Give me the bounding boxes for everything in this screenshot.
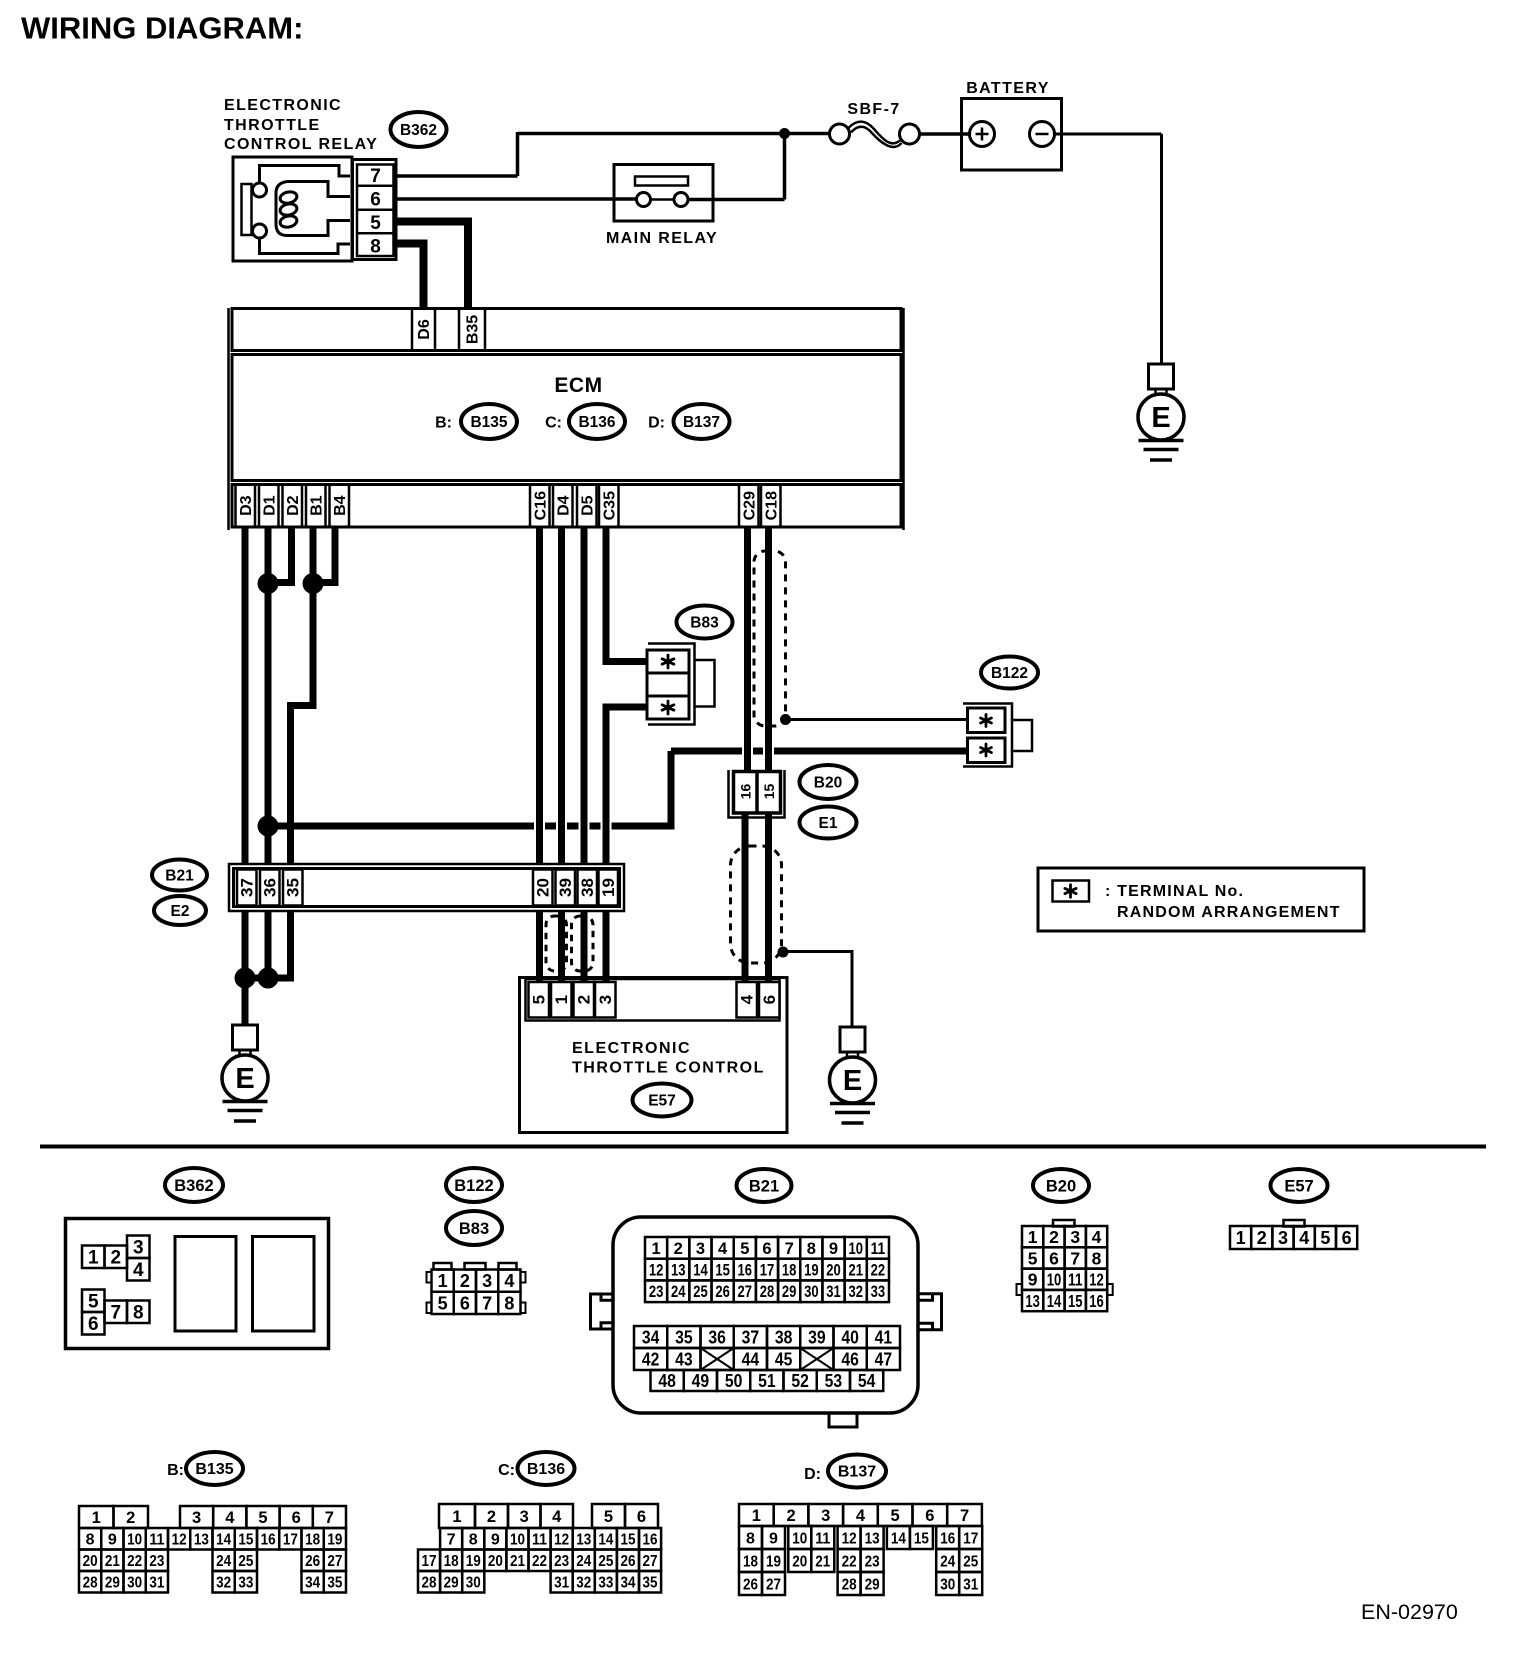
ECM main box [232,355,901,481]
svg-text:E: E [1151,402,1170,434]
svg-text:8: 8 [746,1530,755,1547]
svg-text:RANDOM ARRANGEMENT: RANDOM ARRANGEMENT [1117,904,1341,921]
svg-text:9: 9 [1028,1270,1038,1290]
ETC pin 3 [595,982,616,1018]
svg-text:15: 15 [1068,1291,1083,1311]
svg-text:32: 32 [848,1283,863,1301]
svg-text:6: 6 [88,1314,99,1335]
connector pinout B136 [418,1504,661,1593]
svg-text:1: 1 [651,1240,660,1258]
B21 tab bottom [829,1413,857,1427]
svg-text:23: 23 [554,1553,569,1570]
oval B135 (pinout) [186,1452,243,1485]
svg-text:D4: D4 [555,495,572,516]
wire relay pin5 to ECM B35 (thick) [396,222,468,310]
tab top 2 [465,1263,486,1270]
wire D3 to B21-37 [242,528,249,865]
svg-text:21: 21 [848,1261,863,1279]
svg-text:23: 23 [865,1553,880,1570]
svg-text:4: 4 [1092,1227,1102,1247]
wire branch D1 to B122 (lower horizontal) [268,823,534,830]
svg-text:38: 38 [775,1327,793,1347]
wire main relay to junction [688,198,785,202]
svg-text:5: 5 [530,995,549,1004]
svg-text:38: 38 [578,878,597,897]
svg-text:9: 9 [829,1240,838,1258]
svg-text:22: 22 [127,1553,142,1570]
svg-text:7: 7 [447,1532,456,1549]
junction dot ground 2 [258,968,279,989]
ECM pin C16 [530,485,550,528]
svg-text:29: 29 [105,1575,120,1592]
connector pinout B21 [591,1217,942,1427]
svg-text:2: 2 [1257,1228,1267,1248]
svg-text:12: 12 [1089,1270,1104,1290]
oval B122 (pinout) [446,1168,502,1202]
svg-text:47: 47 [875,1349,893,1369]
ETC pin 5 [529,982,550,1018]
svg-text:ELECTRONIC: ELECTRONIC [224,97,342,114]
svg-text:44: 44 [742,1349,760,1369]
svg-text:1: 1 [88,1248,99,1269]
svg-text:43: 43 [675,1349,693,1369]
svg-text:40: 40 [841,1327,859,1347]
svg-text:25: 25 [598,1553,613,1570]
connector oval B20 [800,765,857,799]
svg-text:THROTTLE: THROTTLE [224,117,321,134]
svg-text:17: 17 [283,1532,298,1549]
svg-text:3: 3 [596,995,615,1004]
svg-text:25: 25 [238,1553,253,1570]
relay contact arm bottom [260,238,351,254]
svg-text:B20: B20 [1046,1177,1076,1195]
svg-text:2: 2 [460,1271,470,1291]
svg-text:4: 4 [718,1240,728,1258]
svg-text:17: 17 [963,1530,978,1547]
separator line [40,1145,1486,1149]
wire battery ground vertical [1160,134,1163,365]
relay connector strip B362 pins [353,160,397,260]
oval B136 [569,404,625,439]
svg-text:6: 6 [370,190,381,211]
svg-text:13: 13 [576,1532,591,1549]
svg-text:E57: E57 [1284,1177,1313,1195]
svg-text:1: 1 [752,1507,761,1525]
shield junction dot to B122 [780,714,791,725]
svg-text:11: 11 [815,1530,830,1547]
svg-text:31: 31 [963,1576,978,1593]
svg-text:16: 16 [261,1532,276,1549]
B21 tab right [918,1294,942,1330]
B362 cavity 1 [175,1237,236,1332]
svg-text:B4: B4 [332,495,349,516]
connector pinout B137 [739,1504,982,1595]
relay coil loop 2 [279,202,298,216]
svg-text:3: 3 [520,1508,529,1526]
svg-text:13: 13 [671,1261,686,1279]
svg-text:1: 1 [1028,1227,1038,1247]
svg-text:26: 26 [715,1283,730,1301]
wire relay pin7 vertical [516,132,520,176]
svg-text:15: 15 [238,1532,253,1549]
svg-text:C:: C: [545,415,562,432]
connector pinout E57 [1230,1220,1357,1249]
svg-text:2: 2 [487,1508,496,1526]
svg-text:26: 26 [305,1553,320,1570]
svg-text:49: 49 [692,1371,710,1391]
svg-text:9: 9 [491,1532,500,1549]
svg-text:41: 41 [875,1327,893,1347]
wire junction vertical [783,134,787,200]
ECM pin D1 [259,485,279,528]
asterisk terminal B83 top [662,655,674,668]
svg-text:52: 52 [791,1371,809,1391]
svg-text:B136: B136 [578,414,615,431]
svg-text:5: 5 [604,1508,613,1526]
wire relay pin8 to ECM D6 (thick) [396,244,424,310]
svg-text:B35: B35 [465,315,482,344]
wire B21-39 to ETC-1 [558,911,565,984]
B20 tab right [1107,1284,1113,1295]
junction dot top bus [779,128,790,139]
svg-text:54: 54 [858,1371,876,1391]
svg-text:C16: C16 [532,491,549,520]
asterisk terminal B122 top [981,715,992,727]
wire branch upper horizontal to B122 [671,748,742,755]
relay contact circle bottom [253,224,267,238]
svg-text:16: 16 [940,1530,955,1547]
svg-text:17: 17 [422,1553,437,1570]
svg-text:51: 51 [758,1371,776,1391]
wire B21-37 to ground [242,912,249,1026]
thin wire shield to B122 [789,718,966,721]
svg-text:7: 7 [482,1293,492,1313]
oval B136 (pinout) [518,1452,575,1485]
svg-text:26: 26 [620,1553,635,1570]
svg-text:31: 31 [149,1575,164,1592]
svg-text:13: 13 [1025,1291,1040,1311]
ECM bottom connector strip [232,485,901,528]
svg-text:7: 7 [960,1507,969,1525]
svg-text:3: 3 [192,1509,201,1527]
ECM pin B4 [330,485,350,528]
ETC pin 1 [551,982,572,1018]
svg-text:B362: B362 [174,1177,213,1195]
svg-text:7: 7 [110,1303,121,1324]
svg-text:B83: B83 [690,614,719,631]
wire B20-16 to ETC-4 [742,812,749,984]
svg-text:MAIN RELAY: MAIN RELAY [606,230,718,247]
svg-text:28: 28 [760,1283,775,1301]
connector B20/E1 pins 16 15 [729,770,785,818]
oval B83 (pinout) [446,1211,502,1245]
svg-text:E57: E57 [648,1092,676,1109]
svg-text:SBF-7: SBF-7 [847,101,900,118]
svg-text:8: 8 [370,237,381,258]
wire C29 to B20-16 [744,528,751,776]
B122 right tab [1012,720,1032,751]
svg-text:14: 14 [216,1532,231,1549]
svg-text:B135: B135 [195,1461,233,1478]
svg-text:20: 20 [792,1553,807,1570]
shield (dashed) around B20 wires [731,846,782,963]
relay coil bobbin [276,182,350,236]
svg-text:14: 14 [1047,1291,1062,1311]
svg-text:50: 50 [725,1371,743,1391]
svg-text:18: 18 [782,1261,797,1279]
svg-text:4: 4 [504,1271,514,1291]
svg-text:34: 34 [642,1327,660,1347]
svg-text:6: 6 [460,1293,470,1313]
svg-text:D1: D1 [261,495,278,516]
tab right 1 [521,1272,526,1283]
svg-text:E1: E1 [819,815,838,832]
svg-text:16: 16 [738,1261,753,1279]
B21 pin 19 [599,870,619,906]
svg-text:30: 30 [940,1576,955,1593]
svg-text:D:: D: [804,1466,821,1483]
B21 pin 37 [237,870,257,906]
tab top 1 [434,1263,452,1270]
asterisk terminal B122 bottom [981,744,992,756]
shield junction dot to ground [778,947,789,958]
tab left 2 [427,1303,432,1314]
svg-text:37: 37 [742,1327,760,1347]
oval B362 (pinout) [165,1168,223,1202]
svg-text:31: 31 [554,1575,569,1592]
svg-text:5: 5 [1320,1228,1330,1248]
svg-text:6: 6 [292,1509,301,1527]
svg-text:27: 27 [766,1576,781,1593]
svg-text:28: 28 [422,1575,437,1592]
ECM pin D3 [236,485,256,528]
connector B83 [647,644,715,725]
svg-text:3: 3 [133,1238,144,1259]
wire top bus to junction [518,132,780,136]
svg-text:D5: D5 [579,495,596,516]
svg-text:42: 42 [642,1349,660,1369]
svg-text:6: 6 [1342,1228,1352,1248]
svg-text:3: 3 [1278,1228,1288,1248]
tab right 2 [521,1303,526,1314]
svg-text:33: 33 [598,1575,613,1592]
wire B21-38 to ETC-2 [581,911,588,984]
svg-text:6: 6 [762,1240,771,1258]
svg-text:5: 5 [891,1507,900,1525]
svg-text:WIRING DIAGRAM:: WIRING DIAGRAM: [21,11,303,46]
svg-text:1: 1 [1236,1228,1246,1248]
svg-text:15: 15 [761,784,777,800]
svg-text:16: 16 [643,1532,658,1549]
wire B1 to B21-35 [291,528,314,865]
svg-text:24: 24 [940,1553,955,1570]
svg-text:2: 2 [110,1248,121,1269]
svg-text:7: 7 [325,1509,334,1527]
E57 tab top [1284,1220,1305,1227]
relay core bar [242,184,252,235]
svg-text:6: 6 [637,1508,646,1526]
junction dot D1/D2 [258,573,279,594]
wire B21-35 joins [268,912,291,978]
svg-text:28: 28 [842,1576,857,1593]
tab top 3 [499,1263,517,1270]
svg-text:ELECTRONIC: ELECTRONIC [572,1040,691,1057]
svg-text:27: 27 [327,1553,342,1570]
svg-text:10: 10 [127,1532,142,1549]
B20 tab top [1053,1220,1075,1227]
svg-text:18: 18 [444,1553,459,1570]
svg-text:37: 37 [238,878,257,897]
wire relay pin6 to main relay [396,197,637,201]
ECM pin D6 [412,309,435,351]
B20 tab left [1017,1284,1023,1295]
junction dot D1 branch [258,816,279,837]
svg-text:3: 3 [696,1240,705,1258]
svg-text:5: 5 [370,213,381,234]
svg-text:33: 33 [238,1575,253,1592]
wire branch vertical corner [668,751,675,830]
svg-text:7: 7 [1070,1248,1080,1268]
oval D:B137 [674,404,730,439]
svg-text:24: 24 [671,1283,686,1301]
svg-text:: TERMINAL No.: : TERMINAL No. [1105,883,1244,900]
svg-text:C18: C18 [763,491,780,520]
wire D1 to B21-36 [265,528,272,865]
svg-text:5: 5 [258,1509,267,1527]
svg-text:20: 20 [488,1553,503,1570]
svg-text:29: 29 [782,1283,797,1301]
shield (dashed) around B21-38 wire [572,916,594,971]
svg-text:4: 4 [225,1509,235,1527]
svg-text:36: 36 [708,1327,726,1347]
svg-text:21: 21 [105,1553,120,1570]
svg-text:E: E [235,1063,254,1095]
svg-text:E: E [843,1065,862,1097]
oval E57 (pinout) [1271,1169,1328,1202]
svg-text:33: 33 [871,1283,886,1301]
svg-text:8: 8 [133,1303,144,1324]
svg-text:2: 2 [575,995,594,1004]
svg-text:B136: B136 [527,1461,565,1478]
svg-text:46: 46 [841,1349,859,1369]
svg-text:9: 9 [769,1530,778,1547]
svg-text:D:: D: [648,415,665,432]
svg-text:B20: B20 [814,774,842,791]
svg-text:7: 7 [370,166,381,187]
svg-text:26: 26 [743,1576,758,1593]
svg-text:B83: B83 [459,1220,489,1238]
svg-text:10: 10 [510,1532,525,1549]
svg-text:12: 12 [649,1261,664,1279]
B21 pin 36 [260,870,280,906]
svg-text:13: 13 [194,1532,209,1549]
ECM right spine [902,308,905,530]
ECM pin C35 [599,485,619,528]
label: ELECTRONIC THROTTLE CONTROL RELAY [224,97,378,153]
wire C35 to B83 [606,528,646,662]
svg-text:20: 20 [826,1261,841,1279]
asterisk terminal B83 bottom [662,701,674,714]
ground E (battery) [1138,364,1184,460]
connector pinout B135 [79,1506,346,1593]
svg-text:8: 8 [469,1532,478,1549]
svg-text:CONTROL RELAY: CONTROL RELAY [224,136,378,153]
svg-text:9: 9 [108,1532,117,1549]
svg-text:C35: C35 [601,491,618,520]
svg-text:16: 16 [1089,1291,1104,1311]
svg-text:21: 21 [815,1553,830,1570]
connector pinout B362 [66,1219,329,1349]
svg-text:7: 7 [785,1240,794,1258]
connector oval B362 [391,112,447,147]
svg-text:1: 1 [92,1509,101,1527]
B21 tab left [591,1294,614,1329]
svg-text:20: 20 [534,878,553,897]
svg-text:53: 53 [825,1371,843,1391]
svg-text:30: 30 [466,1575,481,1592]
svg-text:1: 1 [552,995,571,1004]
oval E57 [633,1084,692,1117]
svg-text:3: 3 [1070,1227,1080,1247]
relay coil loop 3 [279,214,298,228]
wire D5 to B21-38 [581,528,588,865]
svg-text:2: 2 [126,1509,135,1527]
svg-text:B137: B137 [683,414,720,431]
svg-text:25: 25 [693,1283,708,1301]
oval B21 (pinout) [737,1169,792,1202]
svg-text:1: 1 [452,1508,461,1526]
svg-text:B137: B137 [838,1464,876,1481]
svg-text:30: 30 [127,1575,142,1592]
svg-text:16: 16 [737,784,753,800]
svg-text:E2: E2 [171,903,190,920]
svg-text:B1: B1 [308,495,325,516]
svg-text:5: 5 [88,1292,99,1313]
oval B20 (pinout) [1033,1169,1089,1202]
svg-text:BATTERY: BATTERY [966,80,1050,97]
ETC pin 2 [574,982,595,1018]
wire join 36/37 [241,975,272,982]
svg-text:D3: D3 [238,495,255,516]
svg-text:5: 5 [1028,1248,1038,1268]
svg-text:32: 32 [576,1575,591,1592]
svg-text:31: 31 [826,1283,841,1301]
svg-text:2: 2 [786,1507,795,1525]
ECM pin D4 [553,485,573,528]
svg-text:35: 35 [675,1327,693,1347]
svg-text:THROTTLE CONTROL: THROTTLE CONTROL [572,1060,765,1077]
svg-text:B:: B: [167,1462,184,1479]
wire B4 joins B1 [316,528,335,583]
svg-text:1: 1 [438,1271,448,1291]
svg-text:48: 48 [658,1371,676,1391]
svg-text:10: 10 [848,1240,863,1258]
wire B21-36 down [265,912,272,978]
svg-text:B:: B: [435,415,452,432]
svg-text:21: 21 [510,1553,525,1570]
svg-text:14: 14 [891,1530,906,1547]
svg-text:13: 13 [865,1530,880,1547]
B21 pin 35 [283,870,303,906]
svg-text:20: 20 [83,1553,98,1570]
svg-text:30: 30 [804,1283,819,1301]
svg-text:4: 4 [133,1260,144,1281]
svg-text:12: 12 [172,1532,187,1549]
connector oval E1 [800,807,857,839]
svg-text:ECM: ECM [554,374,602,397]
wire B21-19 to ETC-3 [603,911,610,984]
svg-text:27: 27 [738,1283,753,1301]
